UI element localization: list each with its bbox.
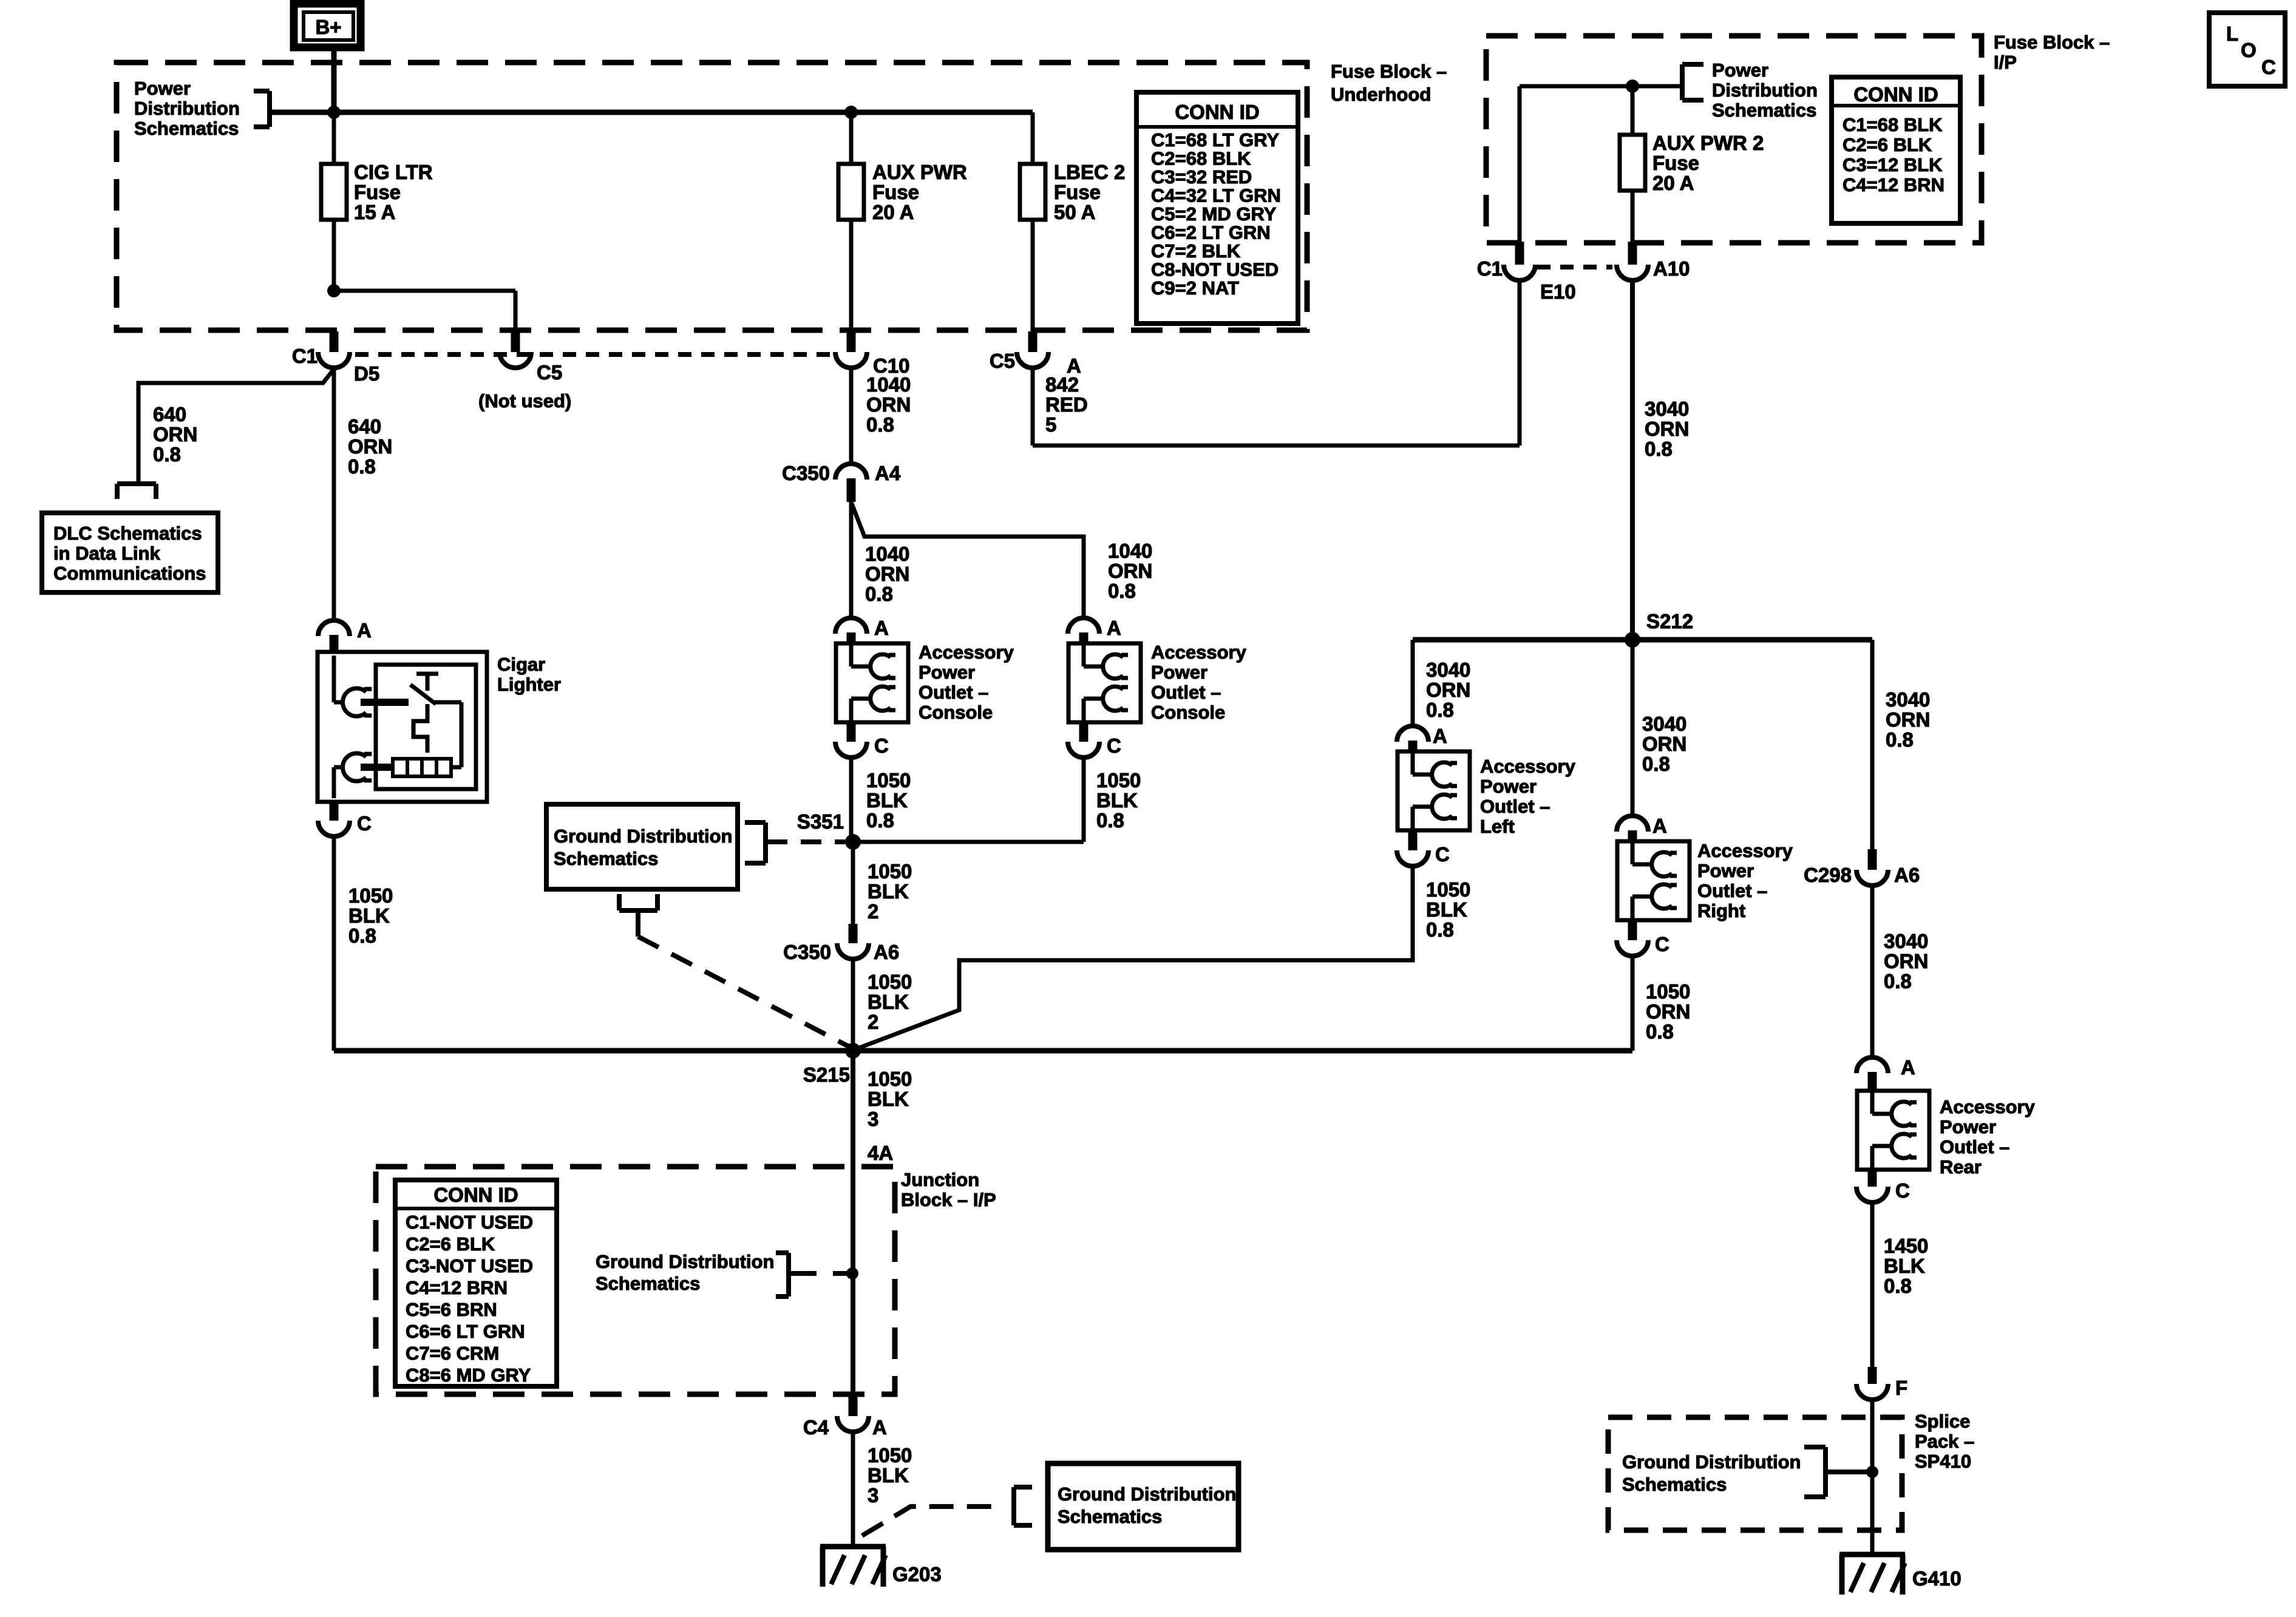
svg-text:I/P: I/P: [1994, 52, 2017, 73]
svg-text:in Data Link: in Data Link: [53, 543, 160, 564]
svg-text:Fuse: Fuse: [1652, 152, 1699, 174]
svg-text:Ground Distribution: Ground Distribution: [1622, 1451, 1801, 1473]
svg-text:1050: 1050: [868, 971, 912, 993]
svg-text:B+: B+: [315, 16, 341, 38]
svg-text:G203: G203: [892, 1563, 942, 1585]
svg-text:Rear: Rear: [1940, 1156, 1982, 1178]
svg-text:842: 842: [1045, 373, 1079, 396]
svg-text:ORN: ORN: [1886, 708, 1930, 731]
svg-text:O: O: [2241, 39, 2257, 61]
svg-text:C1: C1: [1477, 257, 1503, 280]
svg-text:F: F: [1895, 1377, 1907, 1399]
svg-text:C: C: [1655, 933, 1669, 955]
svg-text:Outlet –: Outlet –: [919, 682, 988, 703]
svg-text:C: C: [874, 734, 889, 757]
svg-text:Schematics: Schematics: [554, 848, 658, 869]
svg-text:Power: Power: [1940, 1116, 1996, 1137]
svg-text:Console: Console: [1151, 702, 1225, 723]
svg-text:Power: Power: [1712, 59, 1768, 81]
svg-text:Power: Power: [1151, 662, 1207, 683]
svg-text:L: L: [2226, 22, 2238, 45]
svg-text:50 A: 50 A: [1054, 201, 1095, 223]
svg-text:4A: 4A: [868, 1142, 893, 1164]
svg-text:3: 3: [868, 1108, 878, 1130]
svg-text:Communications: Communications: [53, 563, 206, 584]
svg-text:Underhood: Underhood: [1331, 84, 1431, 105]
svg-text:1050: 1050: [866, 769, 911, 792]
svg-text:1050: 1050: [1096, 769, 1141, 792]
svg-text:640: 640: [348, 415, 381, 438]
svg-text:Outlet –: Outlet –: [1151, 682, 1221, 703]
svg-text:2: 2: [868, 1011, 878, 1033]
svg-text:BLK: BLK: [1884, 1255, 1925, 1277]
svg-text:ORN: ORN: [1108, 560, 1152, 582]
svg-text:Power: Power: [1480, 776, 1537, 797]
svg-text:C2=6 BLK: C2=6 BLK: [1843, 134, 1932, 155]
svg-text:C350: C350: [782, 462, 830, 484]
svg-text:20 A: 20 A: [1652, 172, 1694, 194]
svg-text:0.8: 0.8: [1646, 1020, 1674, 1043]
svg-text:Right: Right: [1697, 900, 1745, 921]
svg-text:A: A: [874, 617, 889, 639]
svg-text:BLK: BLK: [866, 789, 908, 812]
svg-text:Accessory: Accessory: [919, 642, 1014, 663]
svg-text:CONN ID: CONN ID: [1853, 83, 1938, 106]
svg-text:640: 640: [153, 403, 186, 425]
svg-text:Splice: Splice: [1915, 1411, 1970, 1432]
svg-text:C: C: [357, 812, 372, 835]
svg-text:Pack –: Pack –: [1915, 1431, 1974, 1452]
svg-text:S215: S215: [803, 1063, 850, 1086]
svg-text:3: 3: [868, 1484, 878, 1507]
svg-text:0.8: 0.8: [1642, 753, 1670, 775]
svg-text:CONN ID: CONN ID: [433, 1184, 518, 1206]
svg-text:0.8: 0.8: [1426, 699, 1454, 721]
svg-text:Outlet –: Outlet –: [1940, 1136, 2009, 1158]
svg-text:C1-NOT USED: C1-NOT USED: [406, 1212, 533, 1233]
svg-text:CONN ID: CONN ID: [1175, 101, 1259, 123]
svg-text:C298: C298: [1804, 864, 1852, 886]
svg-text:Schematics: Schematics: [596, 1273, 700, 1294]
svg-text:A: A: [872, 1416, 887, 1439]
svg-text:1050: 1050: [868, 1444, 912, 1466]
svg-text:Left: Left: [1480, 816, 1515, 837]
svg-text:Fuse: Fuse: [354, 181, 401, 203]
svg-text:C3-NOT USED: C3-NOT USED: [406, 1255, 533, 1276]
svg-text:(Not used): (Not used): [478, 390, 571, 412]
svg-text:A: A: [357, 619, 372, 642]
svg-text:15 A: 15 A: [354, 201, 395, 223]
svg-text:Fuse Block –: Fuse Block –: [1331, 61, 1447, 82]
svg-text:A: A: [1652, 815, 1667, 837]
svg-text:C1=68 BLK: C1=68 BLK: [1843, 114, 1943, 135]
svg-text:C: C: [1895, 1179, 1910, 1202]
svg-text:DLC Schematics: DLC Schematics: [53, 523, 202, 544]
svg-text:LBEC 2: LBEC 2: [1054, 161, 1125, 183]
svg-text:0.8: 0.8: [1884, 1275, 1912, 1297]
svg-text:Schematics: Schematics: [1712, 100, 1816, 121]
svg-text:RED: RED: [1045, 393, 1088, 416]
svg-text:C3=12 BLK: C3=12 BLK: [1843, 154, 1943, 175]
svg-text:Schematics: Schematics: [1058, 1506, 1162, 1527]
svg-text:1040: 1040: [865, 543, 909, 565]
svg-text:Power: Power: [134, 78, 191, 99]
svg-text:1050: 1050: [1646, 980, 1690, 1003]
svg-text:BLK: BLK: [348, 904, 390, 927]
svg-text:1040: 1040: [1108, 540, 1152, 562]
svg-text:1050: 1050: [868, 1068, 912, 1090]
svg-text:0.8: 0.8: [1884, 970, 1912, 992]
svg-text:C: C: [1435, 843, 1450, 866]
svg-text:0.8: 0.8: [1108, 580, 1136, 602]
svg-text:BLK: BLK: [1426, 898, 1467, 921]
svg-text:0.8: 0.8: [348, 455, 376, 478]
svg-text:0.8: 0.8: [1096, 809, 1124, 832]
svg-text:Schematics: Schematics: [134, 118, 239, 139]
svg-text:0.8: 0.8: [865, 583, 893, 605]
svg-text:CIG LTR: CIG LTR: [354, 161, 433, 183]
svg-text:1040: 1040: [866, 373, 911, 396]
svg-text:2: 2: [868, 900, 878, 923]
svg-text:D5: D5: [354, 362, 379, 385]
svg-text:A10: A10: [1653, 257, 1690, 280]
svg-text:Block – I/P: Block – I/P: [901, 1189, 996, 1210]
svg-text:0.8: 0.8: [1886, 728, 1914, 751]
svg-text:Distribution: Distribution: [134, 98, 240, 119]
svg-text:Power: Power: [919, 662, 975, 683]
svg-text:AUX PWR: AUX PWR: [872, 161, 967, 183]
svg-text:C9=2 NAT: C9=2 NAT: [1151, 277, 1239, 299]
svg-text:BLK: BLK: [868, 1088, 909, 1110]
svg-text:Cigar: Cigar: [497, 654, 545, 675]
svg-text:0.8: 0.8: [1645, 438, 1673, 460]
svg-text:0.8: 0.8: [153, 443, 181, 466]
svg-text:Accessory: Accessory: [1480, 756, 1576, 777]
svg-text:ORN: ORN: [1884, 950, 1928, 972]
svg-text:C: C: [2261, 56, 2276, 78]
svg-text:20 A: 20 A: [872, 201, 914, 223]
svg-text:ORN: ORN: [866, 393, 911, 416]
svg-text:C5: C5: [537, 361, 562, 384]
svg-text:Lighter: Lighter: [497, 674, 561, 695]
svg-text:A6: A6: [1894, 864, 1920, 886]
svg-text:Ground Distribution: Ground Distribution: [596, 1251, 774, 1272]
svg-text:C2=6 BLK: C2=6 BLK: [406, 1233, 495, 1255]
svg-text:A: A: [1107, 617, 1121, 639]
svg-text:ORN: ORN: [153, 423, 197, 446]
svg-text:0.8: 0.8: [866, 413, 894, 436]
svg-text:A6: A6: [874, 941, 899, 963]
svg-text:Fuse Block –: Fuse Block –: [1994, 32, 2110, 53]
svg-text:C6=6 LT GRN: C6=6 LT GRN: [406, 1321, 525, 1342]
svg-text:A: A: [1433, 725, 1447, 747]
svg-text:C4=12 BRN: C4=12 BRN: [1843, 174, 1944, 195]
svg-text:E10: E10: [1540, 280, 1576, 303]
svg-text:Distribution: Distribution: [1712, 80, 1818, 101]
svg-text:A: A: [1901, 1056, 1915, 1079]
svg-text:ORN: ORN: [865, 563, 909, 585]
svg-text:S212: S212: [1646, 610, 1693, 632]
svg-text:ORN: ORN: [1426, 679, 1470, 701]
svg-text:Ground Distribution: Ground Distribution: [554, 825, 732, 847]
svg-text:AUX PWR 2: AUX PWR 2: [1652, 132, 1764, 154]
svg-text:0.8: 0.8: [866, 809, 894, 832]
svg-text:ORN: ORN: [1645, 418, 1689, 440]
svg-text:3040: 3040: [1884, 930, 1928, 952]
svg-text:1050: 1050: [1426, 878, 1470, 901]
svg-text:5: 5: [1045, 413, 1056, 436]
svg-text:Junction: Junction: [901, 1169, 979, 1190]
svg-text:Fuse: Fuse: [872, 181, 919, 203]
svg-text:ORN: ORN: [1646, 1000, 1690, 1023]
svg-text:3040: 3040: [1642, 713, 1686, 735]
svg-text:ORN: ORN: [1642, 733, 1686, 755]
svg-text:ORN: ORN: [348, 435, 392, 458]
svg-text:Accessory: Accessory: [1151, 642, 1247, 663]
svg-text:C4=12 BRN: C4=12 BRN: [406, 1277, 508, 1298]
svg-text:BLK: BLK: [1096, 789, 1138, 812]
svg-text:C5: C5: [990, 350, 1015, 372]
svg-text:Outlet –: Outlet –: [1697, 880, 1767, 901]
svg-text:3040: 3040: [1426, 659, 1470, 681]
svg-text:C8=6 MD GRY: C8=6 MD GRY: [406, 1364, 531, 1386]
svg-text:G410: G410: [1912, 1567, 1961, 1590]
svg-text:Accessory: Accessory: [1940, 1096, 2036, 1117]
svg-text:Power: Power: [1697, 860, 1754, 881]
svg-text:BLK: BLK: [868, 880, 909, 903]
svg-text:Accessory: Accessory: [1697, 840, 1793, 861]
svg-text:0.8: 0.8: [348, 924, 376, 947]
svg-text:1450: 1450: [1884, 1235, 1928, 1257]
svg-text:C7=6 CRM: C7=6 CRM: [406, 1343, 499, 1364]
svg-text:0.8: 0.8: [1426, 918, 1454, 941]
svg-text:3040: 3040: [1886, 688, 1930, 711]
svg-text:1050: 1050: [868, 860, 912, 883]
svg-text:C: C: [1107, 734, 1121, 757]
svg-text:C5=6 BRN: C5=6 BRN: [406, 1299, 497, 1320]
svg-text:Schematics: Schematics: [1622, 1474, 1727, 1495]
svg-text:SP410: SP410: [1915, 1451, 1971, 1472]
svg-text:BLK: BLK: [868, 991, 909, 1013]
svg-text:1050: 1050: [348, 884, 393, 907]
svg-text:Ground Distribution: Ground Distribution: [1058, 1483, 1236, 1505]
svg-text:S351: S351: [797, 810, 844, 833]
svg-text:BLK: BLK: [868, 1464, 909, 1486]
svg-text:Fuse: Fuse: [1054, 181, 1101, 203]
svg-text:C350: C350: [783, 941, 831, 963]
svg-text:Console: Console: [919, 702, 993, 723]
svg-text:3040: 3040: [1645, 398, 1689, 420]
svg-text:Outlet –: Outlet –: [1480, 796, 1550, 817]
svg-text:C4: C4: [803, 1416, 829, 1439]
svg-text:C1: C1: [292, 345, 318, 367]
svg-text:A4: A4: [875, 462, 901, 484]
